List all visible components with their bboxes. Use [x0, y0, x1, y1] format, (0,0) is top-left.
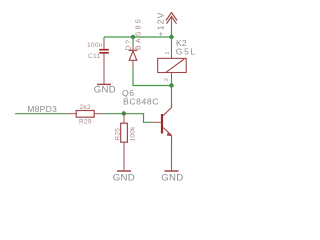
- coil box: [158, 58, 187, 72]
- body: [121, 123, 128, 142]
- plate bottom: [99, 52, 109, 54]
- resistor R25 100k: [114, 113, 136, 170]
- ground GND under C11: [94, 84, 116, 95]
- svg-text:BAS85: BAS85: [135, 17, 142, 50]
- supply symbol +12V arrow: [166, 13, 177, 24]
- svg-text:2: 2: [164, 78, 170, 81]
- base bar: [161, 114, 163, 134]
- svg-text:C11: C11: [88, 53, 100, 60]
- base pin: [152, 121, 161, 123]
- pin ground stub emitter: [171, 166, 173, 171]
- wire +12V supply stub vertical: [171, 18, 173, 37]
- capacitor C11: [87, 37, 109, 84]
- svg-text:BC848C: BC848C: [123, 97, 159, 107]
- svg-text:R29: R29: [79, 119, 92, 126]
- wire collector vertical: [171, 86, 173, 104]
- svg-text:1: 1: [165, 52, 171, 55]
- anode triangle: [129, 51, 137, 60]
- diode D? BAS85: [125, 17, 142, 67]
- wire top net +12V horizontal: [104, 36, 172, 38]
- net M8PD3 wire left: [15, 113, 67, 115]
- wire R29 to base node: [104, 114, 153, 123]
- svg-text:M8PD3: M8PD3: [27, 104, 57, 114]
- svg-text:R25: R25: [114, 128, 121, 141]
- svg-text:GND: GND: [161, 173, 183, 184]
- pin diode bottom: [132, 61, 134, 67]
- pin left: [67, 113, 77, 115]
- relay K2 G5L: [158, 37, 197, 86]
- body: [76, 111, 94, 118]
- svg-text:GND: GND: [94, 84, 116, 95]
- pin 2 wire: [171, 73, 173, 80]
- svg-text:G5L: G5L: [176, 46, 197, 56]
- plate top: [99, 49, 109, 51]
- pin bottom: [123, 142, 125, 171]
- svg-text:GND: GND: [113, 173, 135, 184]
- wire cap top: [103, 37, 105, 41]
- wire emitter to ground: [171, 147, 173, 167]
- resistor R29 2k2: [67, 104, 104, 126]
- node junction base net: [122, 111, 126, 115]
- node junction top at capacitor/diode net and supply: [169, 35, 173, 39]
- pin top: [123, 113, 125, 123]
- svg-text:100n: 100n: [87, 42, 103, 49]
- wire diode bottom to collector node: [133, 67, 172, 86]
- emitter arrowhead: [167, 131, 172, 136]
- pin right: [94, 113, 104, 115]
- pin 1 wire: [171, 37, 173, 45]
- node junction collector net: [169, 83, 173, 87]
- pin cap bottom: [103, 54, 105, 84]
- transistor Q6 BC848C: [122, 88, 172, 147]
- pin diode top: [132, 37, 134, 46]
- collector pin: [163, 104, 171, 116]
- pin cap top: [103, 41, 105, 49]
- ground GND under emitter: [161, 171, 183, 184]
- node junction diode top: [131, 35, 135, 39]
- cathode bar: [129, 49, 138, 51]
- coil diagonal: [166, 59, 184, 72]
- svg-text:+12V: +12V: [156, 11, 166, 36]
- emitter pin with arrow: [163, 128, 171, 147]
- svg-text:2k2: 2k2: [80, 104, 91, 111]
- svg-text:100k: 100k: [130, 126, 137, 142]
- ground GND under R25: [113, 171, 135, 184]
- svg-text:D?: D?: [125, 39, 132, 51]
